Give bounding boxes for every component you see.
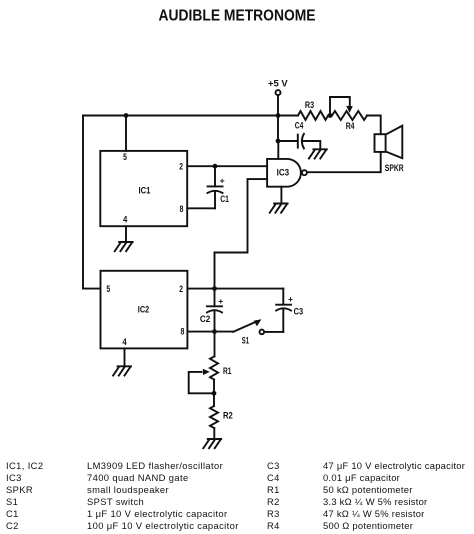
- svg-text:R4: R4: [346, 121, 355, 131]
- svg-text:R1: R1: [267, 484, 280, 495]
- svg-text:+: +: [288, 294, 293, 304]
- svg-text:R2: R2: [223, 411, 233, 421]
- svg-text:S1: S1: [6, 496, 18, 507]
- svg-text:50 kΩ potentiometer: 50 kΩ potentiometer: [323, 484, 413, 495]
- capacitor C2: [200, 289, 223, 332]
- svg-text:IC3: IC3: [277, 168, 290, 178]
- ground under IC3: [270, 204, 288, 213]
- svg-text:2: 2: [179, 161, 183, 171]
- wire IC1 pin 2 to IC3 input A: [187, 165, 267, 167]
- wire left rail to IC2 pin 5: [83, 116, 101, 289]
- svg-text:small loudspeaker: small loudspeaker: [87, 484, 169, 495]
- svg-text:+: +: [218, 296, 223, 306]
- wire top rail: [83, 115, 278, 117]
- node junction IC2 pin2 / C2: [212, 286, 217, 291]
- svg-text:100 μF 10 V electrolytic capac: 100 μF 10 V electrolytic capacitor: [87, 520, 239, 531]
- part C2 value: [6, 520, 239, 531]
- svg-text:IC1: IC1: [139, 185, 151, 195]
- capacitor C4: [295, 121, 304, 149]
- svg-text:4: 4: [122, 337, 126, 347]
- wire S1 to C3: [264, 331, 283, 333]
- part SPKR value: [6, 484, 169, 495]
- svg-text:3.3 kΩ ¼ W 5% resistor: 3.3 kΩ ¼ W 5% resistor: [323, 496, 427, 507]
- svg-text:47 μF 10 V electrolytic capaci: 47 μF 10 V electrolytic capacitor: [323, 460, 465, 471]
- svg-text:R1: R1: [223, 366, 231, 376]
- capacitor C3: [276, 289, 303, 332]
- part R2 value: [267, 496, 427, 507]
- svg-text:4: 4: [123, 215, 127, 225]
- svg-text:C3: C3: [294, 306, 304, 316]
- wire R4 to speaker: [367, 116, 381, 135]
- wire C1 to IC1 pin 8: [187, 207, 215, 209]
- svg-text:IC2: IC2: [138, 304, 149, 314]
- svg-text:C1: C1: [6, 508, 19, 519]
- svg-text:C4: C4: [267, 472, 280, 483]
- wire junction to R1: [214, 332, 216, 357]
- svg-text:SPKR: SPKR: [6, 484, 33, 495]
- speaker SPKR: [375, 126, 404, 174]
- wire IC2 pin 8 row: [187, 331, 233, 333]
- nand gate IC3: [267, 159, 307, 187]
- part R4 value: [267, 520, 413, 531]
- svg-text:8: 8: [180, 204, 184, 214]
- part R1 value: [267, 484, 413, 495]
- node junction R3 / R4: [328, 113, 333, 118]
- svg-text:R3: R3: [305, 100, 314, 110]
- node junction C4 / supply: [276, 139, 281, 144]
- svg-text:5: 5: [106, 284, 110, 294]
- resistor R2: [210, 393, 233, 438]
- title: [159, 8, 316, 25]
- part C4 value: [267, 472, 400, 483]
- svg-text:C3: C3: [267, 460, 280, 471]
- svg-text:SPKR: SPKR: [385, 163, 404, 173]
- svg-text:0.01 μF capacitor: 0.01 μF capacitor: [323, 472, 400, 483]
- wire speaker to IC3 output: [307, 152, 381, 172]
- svg-text:C2: C2: [200, 314, 210, 324]
- svg-text:500 Ω potentiometer: 500 Ω potentiometer: [323, 520, 413, 531]
- svg-text:R4: R4: [267, 520, 280, 531]
- svg-text:1 μF 10 V electrolytic capacit: 1 μF 10 V electrolytic capacitor: [87, 508, 228, 519]
- svg-text:R3: R3: [267, 508, 280, 519]
- ground under IC1: [115, 242, 133, 251]
- svg-text:7400 quad NAND gate: 7400 quad NAND gate: [87, 472, 189, 483]
- node junction top rail / supply: [276, 113, 281, 118]
- ground at C4: [309, 149, 327, 158]
- wire IC3 ground pin: [280, 187, 282, 204]
- svg-text:S1: S1: [242, 336, 249, 346]
- resistor R4 potentiometer: [330, 97, 367, 131]
- part C1 value: [6, 508, 228, 519]
- wire IC3 input B from IC2 pin 2: [215, 179, 268, 289]
- wire IC1 pin 4 to ground: [125, 226, 127, 242]
- svg-text:AUDIBLE METRONOME: AUDIBLE METRONOME: [159, 8, 316, 25]
- wire IC2 pin 4 to ground: [124, 348, 126, 366]
- wire IC3 power pin to C4 node: [277, 141, 279, 159]
- svg-text:8: 8: [181, 326, 185, 336]
- svg-text:SPST switch: SPST switch: [87, 496, 144, 507]
- svg-text:2: 2: [179, 284, 183, 294]
- svg-text:C1: C1: [220, 194, 229, 204]
- wire IC1 pin 5: [125, 116, 127, 151]
- svg-text:C2: C2: [6, 520, 19, 531]
- svg-text:5: 5: [123, 152, 127, 162]
- node junction top rail / IC1 pin5: [124, 113, 129, 118]
- wire supply vertical: [277, 95, 279, 141]
- wire C4 left: [278, 140, 298, 142]
- svg-text:C4: C4: [295, 121, 304, 131]
- resistor R3: [298, 100, 328, 120]
- part IC1 IC2 value: [6, 460, 223, 471]
- svg-text:47 kΩ ¼ W 5% resistor: 47 kΩ ¼ W 5% resistor: [323, 508, 425, 519]
- wire C4 to ground: [303, 141, 320, 149]
- wire rail to R3: [278, 115, 298, 117]
- ground under R2: [203, 439, 221, 448]
- svg-text:+5 V: +5 V: [268, 78, 288, 88]
- capacitor C1: [208, 166, 229, 208]
- resistor R1 potentiometer: [189, 357, 232, 394]
- part C3 value: [267, 460, 465, 471]
- svg-text:IC1, IC2: IC1, IC2: [6, 460, 43, 471]
- IC1 LM3909: [100, 151, 187, 226]
- switch S1: [233, 319, 264, 345]
- node junction pin2 / C1: [213, 164, 218, 169]
- part S1 value: [6, 496, 144, 507]
- ground under IC2: [113, 366, 131, 375]
- svg-text:LM3909 LED flasher/oscillator: LM3909 LED flasher/oscillator: [87, 460, 223, 471]
- svg-text:R2: R2: [267, 496, 280, 507]
- IC2 LM3909: [101, 271, 188, 349]
- part R3 value: [267, 508, 425, 519]
- part IC3 value: [6, 472, 189, 483]
- parts list: [6, 460, 465, 531]
- wire IC2 pin 2 row: [187, 288, 283, 290]
- svg-text:IC3: IC3: [6, 472, 22, 483]
- node +5V supply terminal: [268, 78, 288, 95]
- node junction R1 / wiper / R2: [212, 391, 217, 396]
- node junction pin8 / C2 / R1: [212, 329, 217, 334]
- svg-text:+: +: [220, 176, 225, 186]
